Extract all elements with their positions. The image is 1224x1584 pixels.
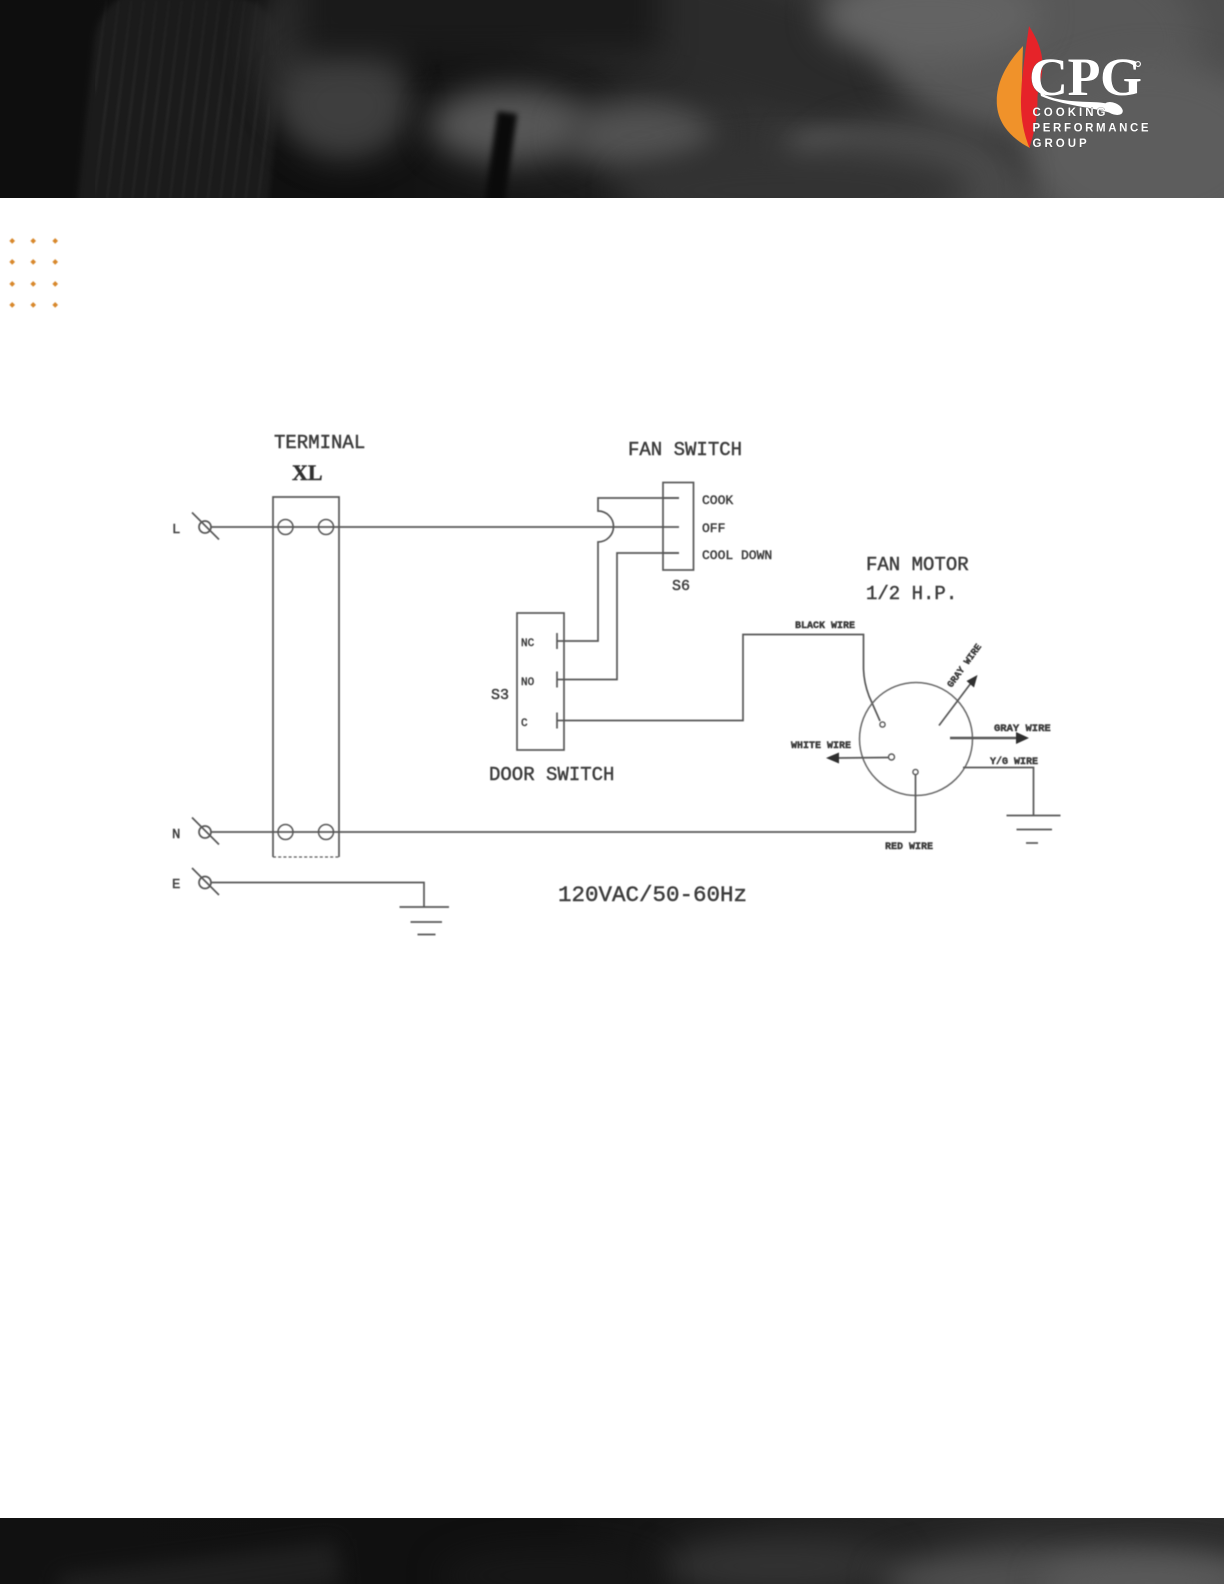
motor terminal (black wire) <box>880 722 885 727</box>
flame red <box>1021 26 1043 148</box>
wire fan switch COOL DOWN to door switch NO <box>557 553 679 680</box>
gray wire (horizontal) arrow <box>950 732 1029 744</box>
terminal block XL <box>273 497 339 857</box>
svg-text:C: C <box>521 718 528 730</box>
motor terminal (red wire) <box>913 769 918 774</box>
CPG logo <box>985 20 1165 170</box>
tong handle <box>483 111 517 218</box>
chef apron with pinstripes <box>76 0 289 229</box>
terminal circle XL-L1 <box>278 520 293 535</box>
svg-text:N: N <box>172 827 180 843</box>
diagonal arm upper right-center <box>528 0 1175 217</box>
smoke <box>880 0 1200 140</box>
svg-text:XL: XL <box>292 460 323 485</box>
wire E to earth ground <box>211 883 424 908</box>
wire L to fan switch OFF <box>211 526 679 528</box>
svg-text:GRAY WIRE: GRAY WIRE <box>994 723 1051 735</box>
svg-text:GRAY WIRE: GRAY WIRE <box>945 642 984 690</box>
wire door switch C to fan motor (black wire) <box>557 635 880 722</box>
svg-text:BLACK WIRE: BLACK WIRE <box>795 621 855 632</box>
wire fan switch COOK to door switch NC (hop over L wire) <box>557 498 679 641</box>
white wire with arrow <box>826 753 888 764</box>
ground (motor y/g) <box>1007 816 1061 844</box>
svg-text:OFF: OFF <box>702 521 725 536</box>
svg-text:L: L <box>172 522 180 538</box>
top photo banner <box>0 0 1224 198</box>
motor terminal (white wire) <box>889 754 895 760</box>
svg-text:120VAC/50-60Hz: 120VAC/50-60Hz <box>558 882 747 908</box>
svg-text:Y/G WIRE: Y/G WIRE <box>990 756 1038 768</box>
svg-text:NC: NC <box>521 638 535 650</box>
svg-text:RED WIRE: RED WIRE <box>885 842 933 853</box>
decorative orange dots <box>0 0 1 1</box>
svg-text:S3: S3 <box>491 687 509 704</box>
svg-text:TERMINAL: TERMINAL <box>274 432 365 454</box>
arm/hand shapes <box>255 0 405 130</box>
svg-text:WHITE WIRE: WHITE WIRE <box>791 741 851 752</box>
bottom photo banner <box>0 1518 1224 1584</box>
terminal circle XL-L2 <box>319 520 334 535</box>
y/g wire to ground <box>963 768 1034 816</box>
svg-text:1/2 H.P.: 1/2 H.P. <box>866 583 957 605</box>
red wire from motor to N line <box>915 775 917 832</box>
terminal circle XL-N2 <box>319 825 334 840</box>
svg-text:FAN MOTOR: FAN MOTOR <box>866 554 969 576</box>
svg-text:COOL DOWN: COOL DOWN <box>702 548 772 563</box>
svg-text:S6: S6 <box>672 578 690 595</box>
terminal N <box>172 818 219 845</box>
fan switch S6 <box>663 483 694 571</box>
terminal E <box>172 868 219 895</box>
terminal circle XL-N1 <box>278 825 293 840</box>
ground (earth) <box>400 907 450 935</box>
door switch S3 <box>517 613 564 750</box>
fan motor body <box>860 683 973 796</box>
gray wire (diagonal) with arrow <box>939 675 978 726</box>
svg-text:FAN SWITCH: FAN SWITCH <box>628 439 742 461</box>
terminal L <box>172 513 219 540</box>
svg-text:NO: NO <box>521 677 535 689</box>
svg-text:DOOR SWITCH: DOOR SWITCH <box>489 764 614 786</box>
plates row <box>430 88 590 163</box>
svg-text:COOK: COOK <box>702 493 733 508</box>
svg-text:E: E <box>172 877 180 893</box>
flame orange <box>997 46 1030 148</box>
wire N to red wire junction <box>211 831 916 833</box>
